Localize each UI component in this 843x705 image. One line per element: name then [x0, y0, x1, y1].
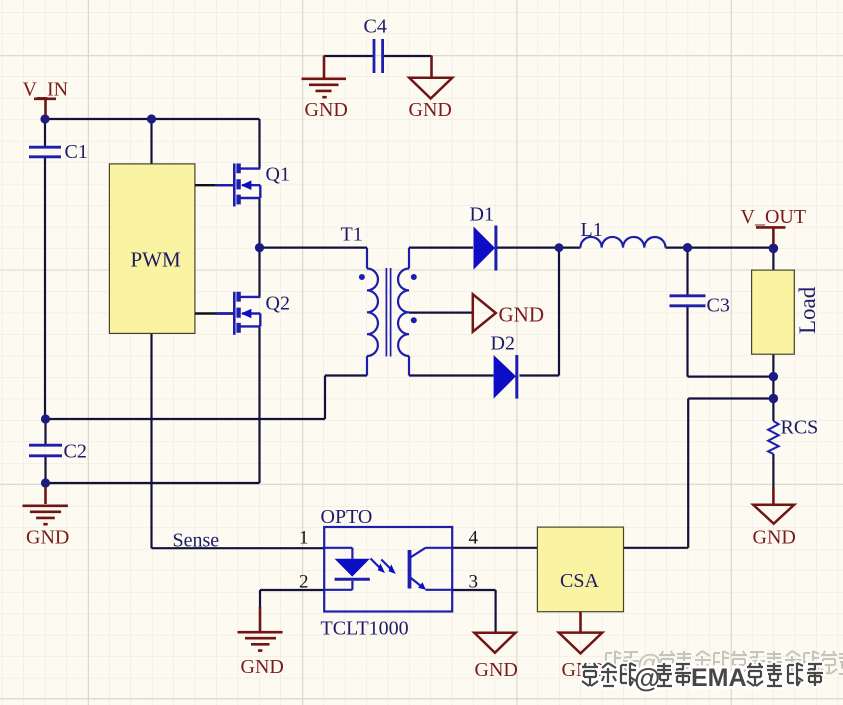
svg-text:GND: GND	[409, 99, 452, 121]
svg-text:GND: GND	[241, 656, 284, 678]
svg-text:4: 4	[469, 528, 479, 549]
svg-text:C1: C1	[65, 141, 88, 163]
svg-text:RCS: RCS	[781, 417, 819, 439]
svg-text:Q2: Q2	[266, 293, 290, 315]
svg-text:CSA: CSA	[560, 570, 599, 592]
svg-text:C2: C2	[64, 441, 87, 463]
svg-text:V_IN: V_IN	[23, 79, 69, 101]
svg-text:GND: GND	[26, 527, 69, 549]
svg-text:2: 2	[299, 572, 309, 593]
svg-text:GND: GND	[499, 303, 545, 327]
svg-text:GND: GND	[305, 99, 348, 121]
svg-text:@: @	[634, 663, 660, 693]
svg-text:GND: GND	[753, 527, 796, 549]
svg-text:D1: D1	[470, 204, 494, 226]
svg-text:TCLT1000: TCLT1000	[321, 618, 409, 640]
svg-text:T1: T1	[341, 224, 363, 246]
svg-text:L1: L1	[581, 219, 603, 241]
svg-text:Sense: Sense	[173, 530, 220, 552]
svg-text:D2: D2	[491, 333, 515, 355]
svg-text:Q1: Q1	[266, 164, 290, 186]
svg-text:C3: C3	[707, 295, 730, 317]
svg-text:OPTO: OPTO	[321, 506, 373, 528]
svg-text:PWM: PWM	[131, 248, 182, 272]
svg-text:Load: Load	[795, 286, 820, 334]
svg-text:1: 1	[299, 528, 309, 549]
svg-text:GND: GND	[475, 659, 518, 681]
svg-text:3: 3	[469, 572, 479, 593]
svg-text:C4: C4	[364, 16, 387, 38]
svg-text:V_OUT: V_OUT	[741, 206, 807, 228]
svg-text:EMA: EMA	[691, 664, 747, 692]
